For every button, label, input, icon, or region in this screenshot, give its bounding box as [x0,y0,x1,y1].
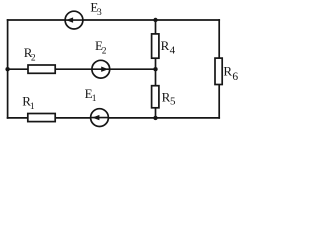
wire top [8,19,220,21]
junction node bottom [153,116,157,120]
svg-text:3: 3 [97,8,102,18]
svg-text:1: 1 [92,94,97,104]
svg-text:6: 6 [232,71,238,83]
resistor R5 [152,86,159,108]
wire right vertical [218,20,220,118]
svg-text:R: R [223,63,232,78]
source E2 [92,60,110,78]
junction node left [5,67,9,71]
wire left vertical [7,20,9,118]
label R6 [223,63,238,83]
label R5 [162,90,176,108]
junction node top [153,18,157,22]
source E3 [65,11,83,29]
source E1 [91,109,109,127]
wire bottom [8,117,220,119]
resistor R1 [28,114,55,122]
label E3 [90,0,102,18]
label E1 [85,86,97,104]
svg-text:1: 1 [30,102,35,112]
wire middle horizontal [8,68,156,70]
svg-text:4: 4 [170,44,176,56]
label R2 [24,45,36,64]
svg-text:R: R [161,38,170,53]
junction node middle [153,67,157,71]
resistor R6 [215,58,222,84]
label E2 [95,38,107,57]
wire middle vertical [155,20,157,118]
svg-text:2: 2 [102,47,107,57]
resistor R4 [152,34,159,58]
resistor R2 [28,65,55,73]
label R1 [22,94,35,112]
label R4 [161,38,176,56]
svg-text:5: 5 [170,96,176,108]
svg-text:2: 2 [31,54,36,64]
